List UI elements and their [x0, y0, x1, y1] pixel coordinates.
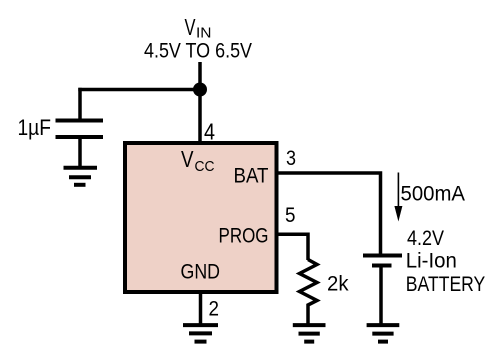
wire capacitor top lead: [78, 88, 82, 120]
resistor R1 2k: [300, 260, 318, 326]
ground (capacitor): [64, 168, 98, 185]
svg-text:4: 4: [204, 119, 215, 145]
svg-text:PROG: PROG: [219, 225, 269, 248]
wire VIN node to capacitor: [78, 88, 200, 92]
battery BT1: [363, 254, 402, 268]
svg-text:CC: CC: [195, 158, 215, 175]
junction node VIN: [193, 83, 207, 97]
svg-text:V: V: [185, 14, 196, 40]
IC U1 charger body: [125, 143, 277, 292]
wire BAT pin 3 to battery: [278, 173, 381, 254]
ground (resistor): [293, 325, 326, 342]
svg-text:3: 3: [286, 147, 296, 170]
svg-text:4.2V: 4.2V: [407, 227, 444, 250]
svg-text:2: 2: [209, 298, 220, 321]
ground (battery): [367, 325, 400, 342]
svg-text:5: 5: [285, 204, 296, 227]
svg-text:4.5V TO 6.5V: 4.5V TO 6.5V: [144, 38, 253, 62]
IC pin label VCC: [181, 146, 215, 175]
svg-text:BAT: BAT: [234, 165, 269, 188]
wire GND pin 2 to ground: [199, 292, 203, 325]
svg-text:500mA: 500mA: [401, 183, 466, 206]
svg-text:GND: GND: [181, 259, 221, 283]
svg-text:Li-Ion: Li-Ion: [406, 249, 457, 272]
current arrow 500mA: [394, 173, 402, 222]
svg-text:BATTERY: BATTERY: [406, 273, 486, 296]
wire battery bottom lead: [379, 268, 383, 326]
wire PROG pin 5 to resistor: [278, 234, 308, 260]
wire VIN vertical to pin 4: [198, 62, 202, 144]
svg-text:V: V: [181, 146, 194, 172]
node VIN label: [185, 14, 212, 42]
svg-text:1µF: 1µF: [18, 115, 52, 140]
svg-text:2k: 2k: [327, 272, 349, 295]
ground (IC GND pin 2): [183, 325, 218, 342]
wire capacitor bottom lead: [78, 139, 82, 167]
capacitor C1 1uF: [56, 119, 104, 140]
